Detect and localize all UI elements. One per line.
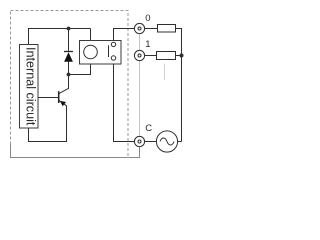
svg-text:1: 1 bbox=[145, 39, 150, 50]
svg-text:C: C bbox=[145, 123, 152, 134]
svg-text:Internal circuit: Internal circuit bbox=[24, 47, 38, 126]
svg-text:0: 0 bbox=[145, 13, 150, 24]
